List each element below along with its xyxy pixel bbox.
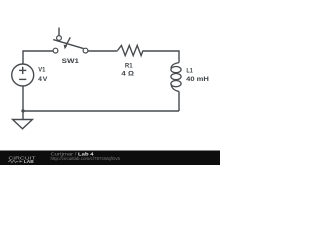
svg-text:4: 4 — [38, 76, 42, 83]
wire top-left from V1 to switch — [23, 51, 53, 64]
CircuitLab logo — [8, 156, 36, 164]
svg-text:V1: V1 — [38, 66, 45, 73]
wire inductor to bottom rail — [178, 91, 180, 111]
svg-text:L1: L1 — [186, 67, 193, 74]
wire resistor to top-right corner and down to inductor — [143, 51, 179, 63]
wire switch top stub — [58, 28, 60, 36]
ground — [13, 111, 33, 129]
voltage source V1 — [12, 64, 34, 86]
switch SW1 — [53, 36, 88, 53]
resistor R1 — [118, 45, 144, 55]
footer watermark bar — [0, 151, 220, 166]
label SW1 — [62, 58, 80, 65]
svg-text:LAB: LAB — [24, 159, 34, 164]
wire bottom rail — [23, 110, 179, 112]
label V1 value — [38, 66, 48, 83]
svg-text:40 mH: 40 mH — [186, 76, 209, 83]
svg-text:V: V — [43, 76, 48, 83]
wire switch right to resistor — [88, 50, 118, 52]
svg-text:R1: R1 — [125, 62, 133, 69]
wire V1 bottom to junction — [22, 86, 24, 111]
label R1 value — [121, 62, 133, 77]
node junction at ground — [21, 109, 24, 112]
svg-text:http://circuitlab.com/c/787sWq: http://circuitlab.com/c/787sWqfGv5 — [51, 156, 121, 161]
svg-text:SW1: SW1 — [62, 58, 80, 65]
switch SW1 arrowhead — [64, 45, 68, 50]
svg-text:4 Ω: 4 Ω — [121, 71, 133, 78]
footer title text — [51, 151, 121, 161]
label L1 value — [186, 67, 209, 83]
inductor L1 — [171, 63, 181, 92]
